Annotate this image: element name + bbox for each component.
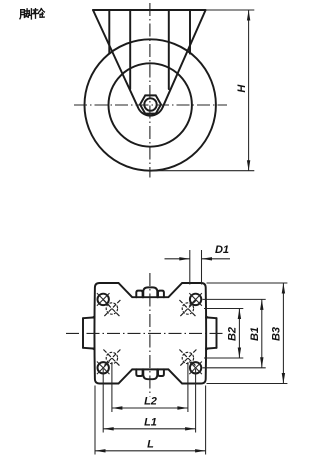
X of hole top-right [189, 293, 202, 306]
L extension lines [95, 386, 206, 455]
char 轮: left 车 [33, 9, 39, 19]
svg-text:L: L [147, 438, 154, 450]
svg-text:H: H [236, 84, 248, 93]
fork top plate edge [93, 9, 206, 11]
L1 extension lines [103, 369, 195, 433]
L2 dimension line [112, 407, 188, 409]
D1 extension line right [201, 250, 203, 285]
char 脚: right 卩 [29, 9, 31, 19]
B1 extension lines [203, 299, 266, 367]
wheel outer circle [85, 39, 216, 170]
axle hex nut [140, 95, 161, 113]
fork left slant edge [93, 10, 138, 107]
svg-text:B3: B3 [271, 327, 283, 341]
left axle end face [82, 318, 84, 348]
fork leg inner edge line right [168, 10, 170, 89]
svg-text:L1: L1 [144, 416, 157, 428]
bottom boss center dome [143, 369, 157, 379]
svg-text:D1: D1 [215, 244, 229, 256]
svg-text:B1: B1 [249, 327, 261, 341]
svg-text:B2: B2 [227, 327, 239, 341]
left axle top edge [83, 316, 95, 319]
right axle end face [216, 318, 218, 348]
axle circle inside nut [144, 98, 156, 110]
alt hole (dashed) top-right [182, 303, 193, 314]
extension line bottom (H) [151, 170, 254, 172]
horizontal centerline top view [74, 104, 227, 106]
D1 extension line left [189, 250, 191, 285]
wheel hub circle [109, 63, 192, 146]
alt hole (dashed) bottom-left [106, 352, 117, 363]
bolt hole top-left [98, 294, 109, 305]
right axle bottom edge [206, 347, 217, 350]
alt hole (dashed) top-left [106, 303, 117, 314]
left axle bottom chamfer wedge [90, 347, 96, 351]
dashed X top-right [179, 300, 196, 317]
bolt hole top-right [190, 294, 201, 305]
B1 dimension line [261, 299, 263, 367]
D1 arrow right [202, 257, 213, 260]
D1 dimension line right part [202, 258, 231, 260]
left axle bottom edge [83, 347, 95, 350]
bottom boss right ear [158, 369, 164, 376]
fork leg outer edge line right [189, 10, 191, 54]
left axle top chamfer wedge [90, 315, 96, 319]
B2 arrows [238, 309, 241, 359]
L arrows [95, 449, 206, 452]
B2 extension lines [204, 309, 243, 359]
L2 arrows [112, 406, 188, 409]
right axle top chamfer wedge [205, 315, 211, 319]
char 轮: right 仑 [39, 9, 45, 18]
bolt hole bottom-left [98, 362, 109, 373]
char 脚: left 月 [20, 10, 25, 19]
top boss center dome [143, 287, 157, 297]
alt hole (dashed) bottom-right [182, 352, 193, 363]
B1 arrows [260, 299, 263, 367]
vertical centerline top view [149, 3, 151, 178]
vertical centerline bottom view [149, 273, 151, 397]
top boss left ear [136, 291, 142, 298]
bottom boss left ear [136, 369, 142, 376]
X of hole bottom-left [97, 362, 110, 375]
svg-text:L2: L2 [144, 396, 157, 408]
fork right slant edge [163, 10, 206, 107]
X of hole top-left [97, 293, 110, 306]
right axle top edge [206, 316, 217, 319]
L1 arrows [103, 427, 195, 430]
B3 arrows [282, 283, 285, 384]
dashed X bottom-left [103, 350, 120, 367]
B3 extension lines [207, 283, 288, 384]
title text 脚轮 drawn as strokes [20, 9, 45, 19]
fork bottom U-arc around axle [138, 107, 163, 115]
arrow H bottom [247, 160, 250, 171]
arrow H top [247, 10, 250, 21]
plate outline [94, 283, 206, 384]
L1 dimension line [103, 428, 195, 430]
bolt hole bottom-right [190, 362, 201, 373]
X of hole bottom-right [189, 362, 202, 375]
L2 extension lines [112, 362, 188, 412]
dashed X bottom-right [179, 350, 196, 367]
extension line top (H) [206, 9, 255, 11]
D1 arrow left [179, 257, 190, 260]
fork leg outer edge line left [108, 10, 110, 54]
D1 dimension line left part [165, 258, 190, 260]
B2 dimension line [238, 309, 240, 359]
top boss right ear [158, 291, 164, 298]
right axle bottom chamfer wedge [205, 347, 211, 351]
char 脚: middle 去 [25, 9, 29, 17]
B3 dimension line [282, 283, 284, 384]
dimension line H [248, 10, 250, 171]
dashed X top-left [103, 300, 120, 317]
horizontal centerline bottom view [66, 332, 226, 334]
fork leg inner edge line left [129, 10, 131, 89]
L dimension line [95, 450, 206, 452]
